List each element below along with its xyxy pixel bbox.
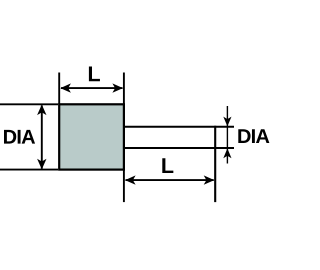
top L: left arrowhead (60, 83, 71, 92)
right DIA: dimension line (226, 106, 228, 164)
top L: left extension line (58, 73, 60, 105)
top L: right extension line (123, 73, 125, 105)
left DIA: bottom extension line (0, 169, 58, 171)
top L: dimension line (61, 87, 123, 89)
bottom L: left extension line (body right edge extended) (123, 170, 125, 202)
left DIA: label (4, 130, 35, 144)
bottom L: right arrowhead (204, 175, 215, 184)
left DIA: top extension line (0, 103, 58, 105)
right DIA: down arrowhead (above shank) (223, 117, 231, 127)
shank top line (124, 126, 234, 128)
right DIA: up arrowhead (below shank) (223, 148, 231, 158)
right DIA: label (238, 129, 269, 143)
left DIA: dimension line (41, 106, 43, 169)
left DIA: up arrowhead (37, 105, 46, 116)
bottom L: label (162, 158, 173, 173)
abrasive body (gray square) (59, 104, 124, 169)
top L: right arrowhead (112, 83, 123, 92)
bottom L: left arrowhead (125, 175, 136, 184)
left DIA: down arrowhead (37, 159, 46, 170)
bottom L: dimension line (126, 179, 214, 181)
top L: label (89, 67, 100, 82)
shank end cap / right extension line (214, 126, 216, 202)
shank bottom line (124, 147, 234, 149)
